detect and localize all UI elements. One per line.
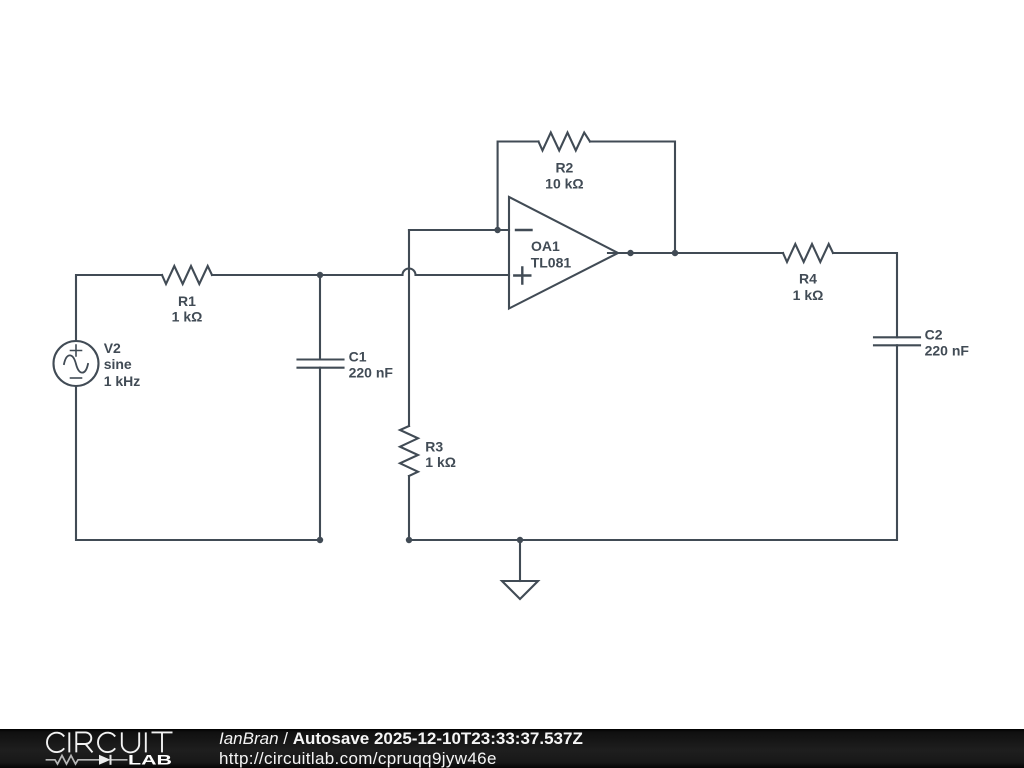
R [76,732,92,752]
label R3 value [425,439,456,471]
resistor R1 [162,266,212,284]
label C1 value [349,349,394,381]
svg-text:OA1: OA1 [531,238,560,254]
svg-text:TL081: TL081 [531,254,572,270]
svg-text:1 kΩ: 1 kΩ [172,309,203,325]
label V2 value [104,340,141,389]
label C2 value [925,327,970,359]
junction dot feedback tap [672,250,678,256]
svg-text:V2: V2 [104,340,121,356]
junction dot feedback to minus input [494,227,500,233]
svg-text:R4: R4 [799,271,817,287]
T [152,732,173,752]
wire node A down to C1 [319,275,321,360]
resistor R4 [783,244,833,262]
svg-text:1 kΩ: 1 kΩ [793,287,824,303]
wire V2 bottom to ground rail [76,386,320,540]
capacitor C1 [298,360,344,368]
wire C2 bottom to ground rail [520,345,897,540]
op-amp OA1 [509,197,618,309]
svg-text:R2: R2 [555,160,573,176]
svg-text:1 kΩ: 1 kΩ [425,454,456,470]
wire op-amp output [608,252,675,254]
svg-text:220 nF: 220 nF [349,365,394,381]
wire R3 branch vertical [408,230,410,426]
resistor R2 [539,133,591,151]
footer url line [219,749,497,768]
C [98,733,115,752]
wire ground rail middle [409,539,520,541]
junction dot R3 ground [406,537,412,543]
feedback wire up from minus junction over to R2 [498,142,539,231]
svg-text:1 kHz: 1 kHz [104,373,141,389]
svg-text:C1: C1 [349,349,367,365]
svg-text:10 kΩ: 10 kΩ [545,175,583,191]
footer bar [0,729,1024,768]
wire R4 to C2 [833,253,897,337]
svg-text:R1: R1 [178,293,196,309]
junction dot output lead [627,250,633,256]
svg-text:LAB: LAB [128,751,172,767]
logo word CIRCUIT [47,732,173,752]
label OA1 TL081 [531,238,572,271]
wire C1 bottom to ground rail [319,368,321,540]
junction dot ground symbol tap [517,537,523,543]
junction dot C1 ground [317,537,323,543]
C [47,733,64,752]
I [68,732,70,752]
svg-text:220 nF: 220 nF [925,343,970,359]
CircuitLab logo [0,729,190,768]
U [122,732,139,752]
logo resistor-diode glyph [46,755,128,765]
node A junction dot [317,272,323,278]
wire R1 to node A [212,274,320,276]
I [145,732,147,752]
ground [502,540,538,599]
wire output to R4 [675,252,783,254]
label R4 value [793,271,824,303]
svg-text:sine: sine [104,356,132,372]
label R2 value [545,160,583,192]
footer title line [219,729,583,749]
feedback wire R2 right down to output [590,142,675,254]
wire node A toward op-amp plus input with hop over R3 branch [320,269,509,276]
svg-text:C2: C2 [925,327,943,343]
svg-text:R3: R3 [425,439,443,455]
wire top-left from V2 top to R1 [76,275,162,341]
label R1 value [172,293,203,325]
wire R3 bottom to ground rail [408,476,410,540]
capacitor C2 [874,337,920,345]
wire minus input branch from R3 top corner [409,229,509,231]
voltage source V2 [54,341,99,386]
resistor R3 [400,426,418,476]
